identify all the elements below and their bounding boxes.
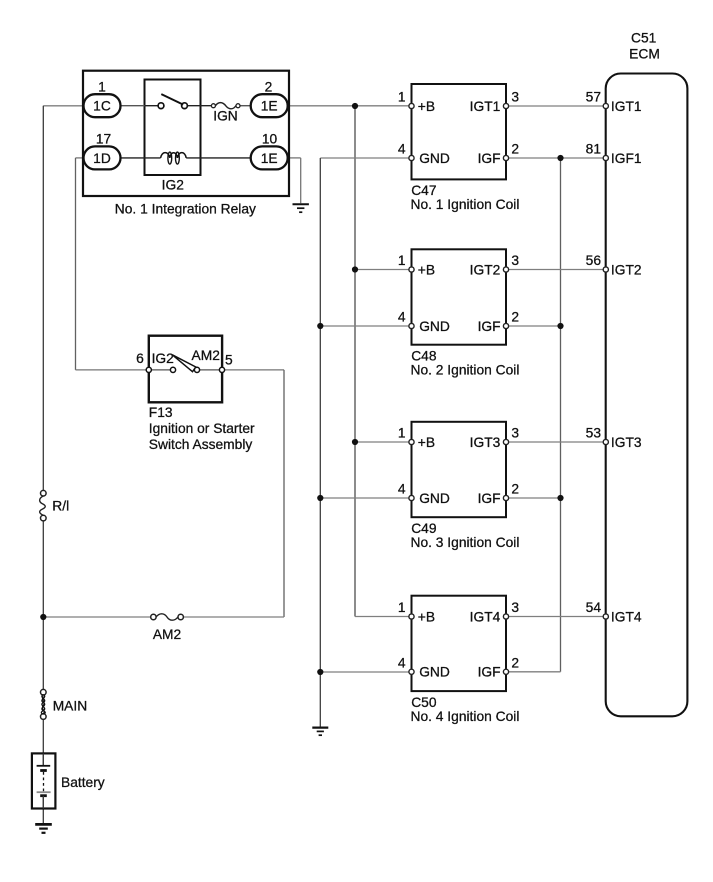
svg-text:3: 3 xyxy=(511,426,519,441)
svg-text:5: 5 xyxy=(225,353,233,368)
svg-text:MAIN: MAIN xyxy=(53,698,87,713)
svg-text:2: 2 xyxy=(511,310,519,325)
svg-text:2: 2 xyxy=(511,482,519,497)
svg-text:IGT3: IGT3 xyxy=(470,435,501,450)
svg-text:1D: 1D xyxy=(93,151,111,166)
svg-text:IGT1: IGT1 xyxy=(470,99,501,114)
svg-text:2: 2 xyxy=(511,142,519,157)
svg-text:IGN: IGN xyxy=(213,109,238,124)
svg-text:F13: F13 xyxy=(149,405,173,420)
svg-text:No. 1 Ignition Coil: No. 1 Ignition Coil xyxy=(411,197,520,212)
svg-text:4: 4 xyxy=(398,310,406,325)
svg-text:1C: 1C xyxy=(93,99,111,114)
svg-text:IGF: IGF xyxy=(478,491,501,506)
svg-text:54: 54 xyxy=(586,600,602,615)
svg-text:C48: C48 xyxy=(411,349,437,364)
svg-text:C50: C50 xyxy=(411,695,437,710)
svg-text:17: 17 xyxy=(96,132,111,147)
svg-text:C49: C49 xyxy=(411,521,437,536)
svg-text:IGF: IGF xyxy=(478,151,501,166)
svg-text:1E: 1E xyxy=(261,99,278,114)
svg-text:1: 1 xyxy=(398,600,406,615)
svg-text:ECM: ECM xyxy=(629,47,660,62)
svg-text:R/l: R/l xyxy=(52,499,69,514)
svg-text:1E: 1E xyxy=(261,151,278,166)
svg-text:IGT1: IGT1 xyxy=(611,99,642,114)
svg-text:No. 4 Ignition Coil: No. 4 Ignition Coil xyxy=(411,709,520,724)
svg-text:IGT2: IGT2 xyxy=(611,263,642,278)
svg-text:No. 1 Integration Relay: No. 1 Integration Relay xyxy=(115,201,256,216)
svg-text:IGT4: IGT4 xyxy=(470,609,501,624)
svg-text:1: 1 xyxy=(398,253,406,268)
svg-text:3: 3 xyxy=(511,90,519,105)
svg-text:IGT4: IGT4 xyxy=(611,610,642,625)
svg-text:GND: GND xyxy=(419,151,450,166)
svg-text:AM2: AM2 xyxy=(192,348,220,363)
svg-text:Switch Assembly: Switch Assembly xyxy=(149,437,253,452)
svg-text:Ignition or Starter: Ignition or Starter xyxy=(149,421,255,436)
svg-text:56: 56 xyxy=(586,253,602,268)
svg-text:57: 57 xyxy=(586,89,601,104)
svg-text:81: 81 xyxy=(586,141,601,156)
svg-text:+B: +B xyxy=(418,99,435,114)
svg-text:IGF: IGF xyxy=(478,665,501,680)
svg-text:IGF1: IGF1 xyxy=(611,151,642,166)
svg-text:1: 1 xyxy=(98,80,106,95)
svg-text:IGT3: IGT3 xyxy=(611,435,642,450)
svg-text:6: 6 xyxy=(136,351,144,366)
svg-text:No. 2 Ignition Coil: No. 2 Ignition Coil xyxy=(411,362,520,377)
svg-text:IG2: IG2 xyxy=(152,351,174,366)
svg-text:3: 3 xyxy=(511,253,519,268)
svg-text:10: 10 xyxy=(262,132,278,147)
svg-text:1: 1 xyxy=(398,426,406,441)
svg-text:2: 2 xyxy=(265,80,273,95)
svg-text:+B: +B xyxy=(418,609,435,624)
svg-text:AM2: AM2 xyxy=(153,627,181,642)
svg-text:IGT2: IGT2 xyxy=(470,262,501,277)
svg-text:No. 3 Ignition Coil: No. 3 Ignition Coil xyxy=(411,535,520,550)
svg-text:4: 4 xyxy=(398,656,406,671)
svg-text:+B: +B xyxy=(418,435,435,450)
svg-text:Battery: Battery xyxy=(61,775,105,790)
svg-text:4: 4 xyxy=(398,482,406,497)
svg-text:IGF: IGF xyxy=(478,319,501,334)
svg-text:53: 53 xyxy=(586,425,602,440)
svg-text:+B: +B xyxy=(418,262,435,277)
svg-text:GND: GND xyxy=(419,491,450,506)
svg-text:C47: C47 xyxy=(411,183,436,198)
svg-text:4: 4 xyxy=(398,142,406,157)
svg-text:GND: GND xyxy=(419,319,450,334)
svg-text:GND: GND xyxy=(419,665,450,680)
svg-text:2: 2 xyxy=(511,656,519,671)
svg-text:3: 3 xyxy=(511,600,519,615)
svg-text:C51: C51 xyxy=(631,30,656,45)
svg-text:IG2: IG2 xyxy=(162,177,184,192)
svg-text:1: 1 xyxy=(398,90,406,105)
